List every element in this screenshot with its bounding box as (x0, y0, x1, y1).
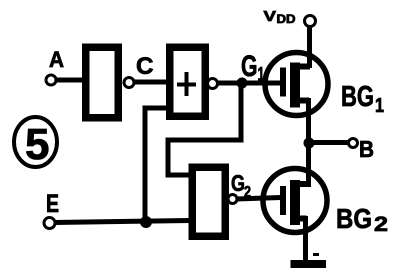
svg-text:DD: DD (277, 14, 296, 26)
svg-text:G: G (231, 170, 245, 196)
svg-text:BG: BG (341, 81, 374, 113)
svg-text:V: V (264, 8, 277, 25)
svg-text:G: G (241, 50, 258, 83)
svg-text:5: 5 (25, 120, 49, 169)
svg-text:B: B (359, 136, 374, 162)
svg-text:2: 2 (374, 213, 388, 236)
svg-text:1: 1 (375, 95, 384, 117)
svg-text:BG: BG (336, 203, 372, 234)
svg-text:E: E (46, 190, 59, 218)
svg-text:2: 2 (244, 184, 251, 201)
svg-text:A: A (49, 47, 64, 72)
svg-text:1: 1 (258, 65, 265, 86)
svg-text:C: C (136, 53, 154, 80)
